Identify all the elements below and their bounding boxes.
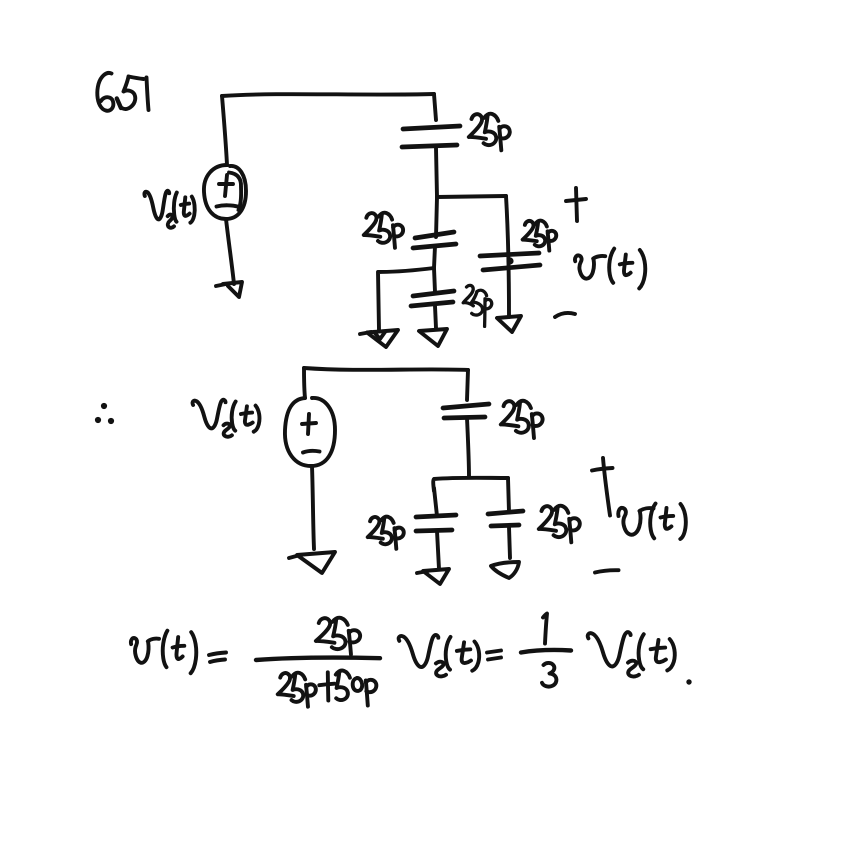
equation one third bar xyxy=(521,650,571,652)
plus sign VS1 xyxy=(225,175,227,196)
equation denominator 50p xyxy=(336,671,377,706)
wire C5 to node C xyxy=(467,418,469,477)
plus sign v(t) bottom xyxy=(603,458,610,516)
ground arrow C6 xyxy=(417,569,449,584)
equation numerator 25p xyxy=(316,618,360,655)
wire to C5 xyxy=(467,370,468,400)
label C7 value 25p xyxy=(539,506,580,543)
wire node B down to C3 xyxy=(434,268,435,292)
node C bar xyxy=(433,478,508,491)
label 6.51 xyxy=(97,73,148,111)
wire C1 to node A xyxy=(436,148,437,197)
minus sign VS2 xyxy=(303,451,320,453)
plus sign VS2 xyxy=(308,414,309,434)
label C4 value 25p xyxy=(523,221,557,251)
label Vs(t) source VS2 xyxy=(193,400,260,437)
equation label v(t) xyxy=(131,631,196,674)
ground arrow C7 xyxy=(491,562,519,578)
wire node A down to C2 xyxy=(436,197,437,237)
therefore symbol xyxy=(95,403,114,424)
equation equals 1 xyxy=(209,653,226,663)
label C6 value 25p xyxy=(368,517,404,549)
wire right branch vertical xyxy=(506,196,509,317)
label v(t) top xyxy=(575,249,645,289)
minus sign VS1 xyxy=(217,205,239,207)
equation equals 2 xyxy=(487,651,501,660)
ground arrow VS1 xyxy=(216,282,242,297)
equation label Vs(t) result xyxy=(588,632,675,676)
label C1 value 25p xyxy=(469,114,510,151)
label Vs(t) source VS1 xyxy=(144,191,194,228)
wire stub top to C1 xyxy=(434,94,436,120)
label v(t) bottom xyxy=(618,504,686,540)
wire top horizontal xyxy=(222,94,434,96)
wire VS2 to ground arrow xyxy=(312,466,314,549)
equation denominator 25p xyxy=(278,673,316,707)
wire node B to left ground xyxy=(378,268,434,330)
equation fraction bar xyxy=(256,658,380,660)
label C5 value 25p xyxy=(501,401,543,438)
ground arrow left xyxy=(360,330,398,347)
equation label Vs(t) mid xyxy=(399,635,479,676)
voltage source VS2 xyxy=(285,398,335,466)
label C3 value 25p rotated xyxy=(463,285,492,326)
wire source VS1 top lead xyxy=(222,96,227,165)
minus sign v(t) top xyxy=(555,313,575,317)
wire node A to right branch xyxy=(437,196,506,197)
wire C2 to node B xyxy=(434,246,435,268)
equation period xyxy=(686,679,691,684)
ground arrow right xyxy=(497,316,521,332)
label C2 value 25p xyxy=(364,213,403,248)
equation one third numeral 3 xyxy=(542,663,556,687)
equation one third numeral 1 xyxy=(543,614,547,644)
junction dot C4 xyxy=(506,257,513,264)
capacitor C7 xyxy=(488,511,523,514)
wire node C to C7 xyxy=(508,478,509,512)
ground arrow VS2 xyxy=(289,552,335,573)
minus sign v(t) bottom xyxy=(595,570,619,572)
capacitor C5 xyxy=(443,404,489,408)
plus sign v(t) top xyxy=(576,188,577,221)
wire C3 to ground xyxy=(435,306,436,328)
wire VS1 to ground arrow xyxy=(226,219,234,284)
voltage source VS1 inner stroke xyxy=(229,173,241,211)
capacitor C2 xyxy=(415,232,454,238)
capacitor C4 xyxy=(480,253,539,256)
capacitor C3 xyxy=(413,291,454,296)
voltage source VS1 xyxy=(204,165,246,219)
wire node C to C6 xyxy=(434,488,437,516)
wire VS2 top lead xyxy=(304,368,305,398)
equation denominator plus xyxy=(319,672,334,700)
wire C7 to ground xyxy=(509,527,510,558)
wire top horizontal lower circuit xyxy=(304,368,468,370)
capacitor C1 xyxy=(403,126,460,129)
capacitor C6 xyxy=(416,515,456,517)
wire C6 to ground xyxy=(437,531,439,569)
ground arrow middle xyxy=(419,329,447,346)
